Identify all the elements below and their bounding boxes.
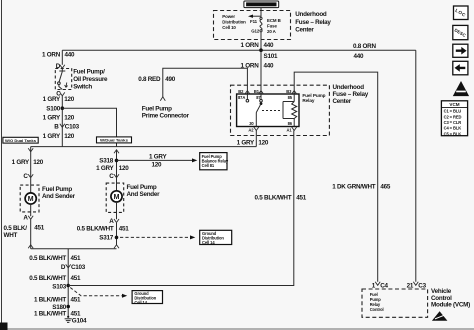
- pin D of oil pressure switch: [56, 63, 65, 70]
- svg-text:1 GRY: 1 GRY: [43, 114, 61, 121]
- svg-text:451: 451: [71, 297, 82, 304]
- svg-text:Fuel Pump: Fuel Pump: [142, 105, 172, 112]
- icon: DESC button: [453, 25, 468, 39]
- svg-text:440: 440: [264, 42, 275, 49]
- svg-text:1 GRY: 1 GRY: [12, 159, 30, 166]
- value label 1 GRY 120 (relay output): [237, 140, 269, 147]
- svg-text:120: 120: [119, 165, 130, 172]
- svg-text:1 GRY: 1 GRY: [43, 133, 61, 140]
- svg-text:B2: B2: [238, 89, 244, 94]
- relay K1 outer dashed box: [231, 85, 330, 135]
- svg-text:VCM: VCM: [449, 102, 459, 107]
- svg-text:Relay: Relay: [302, 98, 315, 103]
- svg-text:Cell 81: Cell 81: [202, 163, 215, 168]
- pin arrow fuel pump prime connector: [160, 97, 165, 101]
- value label 1 ORN 440 (left): [42, 52, 75, 59]
- label: Hot At All Times: [244, 1, 279, 8]
- svg-text:M: M: [114, 194, 120, 201]
- svg-text:0.5 BLK/WHT: 0.5 BLK/WHT: [29, 255, 66, 262]
- node S317: [99, 235, 118, 242]
- svg-text:C103: C103: [65, 124, 80, 131]
- wire: drop to S318: [116, 150, 118, 177]
- pin C of left fuel pump: [23, 173, 33, 180]
- svg-text:S317: S317: [99, 235, 113, 242]
- label: Vehicle Control Module (VCM): [431, 288, 470, 309]
- pin B1 of relay: [254, 89, 264, 94]
- value label 0.8 RED 490: [138, 76, 176, 83]
- wire: right pump A to S317: [116, 223, 118, 245]
- svg-text:Center: Center: [295, 27, 314, 34]
- svg-text:Fuel Pump/: Fuel Pump/: [73, 69, 105, 76]
- svg-text:1 GRY: 1 GRY: [149, 154, 167, 161]
- fuse block dashed box (Power Distribution): [214, 11, 291, 40]
- svg-text:Fuse: Fuse: [267, 24, 278, 29]
- svg-text:Underhood: Underhood: [295, 11, 327, 18]
- svg-text:S318: S318: [99, 158, 113, 165]
- wire: arrow to Fuel Pump Balance Relay: [117, 158, 198, 162]
- svg-text:Fuel Pump: Fuel Pump: [127, 184, 157, 191]
- wire: GRY 120 bus: [31, 146, 257, 148]
- svg-text:451: 451: [296, 195, 307, 202]
- switch SW1 Fuel Pump/Oil Pressure Switch: [55, 69, 71, 90]
- pin arrow dual tank drop: [114, 150, 119, 154]
- svg-text:A1: A1: [287, 128, 293, 133]
- value label 0.5 BLK/WHT 451: [29, 255, 81, 262]
- svg-text:B3: B3: [286, 89, 292, 94]
- svg-text:1 GRY: 1 GRY: [237, 140, 255, 147]
- svg-text:F11: F11: [250, 19, 258, 24]
- svg-text:Fuel Pump: Fuel Pump: [42, 186, 72, 193]
- pin C of oil pressure switch: [56, 90, 65, 97]
- svg-text:0.5 BLK/: 0.5 BLK/: [4, 225, 28, 232]
- pin A2 of relay: [248, 127, 258, 133]
- value label 0.5 BLK/WHT 451 (right pump): [77, 226, 130, 233]
- svg-text:451: 451: [71, 255, 82, 262]
- icon: previous arrow button: [453, 61, 468, 75]
- svg-text:451: 451: [71, 275, 82, 282]
- svg-text:Cell 14: Cell 14: [202, 240, 215, 245]
- svg-text:C5 = BLK: C5 = BLK: [444, 131, 462, 136]
- svg-text:440: 440: [264, 62, 275, 69]
- icon: next arrow button: [453, 44, 468, 57]
- svg-text:120: 120: [64, 96, 75, 103]
- svg-text:A2: A2: [248, 128, 254, 133]
- svg-text:1 GRY: 1 GRY: [96, 165, 114, 172]
- svg-text:WHT: WHT: [4, 232, 18, 239]
- svg-text:1 DK GRN/WHT: 1 DK GRN/WHT: [332, 184, 376, 191]
- svg-text:451: 451: [34, 224, 45, 231]
- svg-text:Cell 10: Cell 10: [222, 25, 236, 30]
- svg-text:Center: Center: [333, 98, 352, 105]
- value label 1 GRY 120 (balance relay feed): [149, 154, 167, 169]
- svg-text:440: 440: [65, 52, 76, 59]
- svg-text:Module (VCM): Module (VCM): [431, 302, 470, 309]
- VCM U1 dashed box: [362, 289, 428, 317]
- svg-text:M: M: [28, 196, 34, 203]
- ground G104: [65, 316, 87, 325]
- svg-text:A: A: [23, 215, 28, 222]
- wire: fuse output to S101: [260, 32, 262, 50]
- svg-text:Cell 14: Cell 14: [134, 300, 147, 305]
- label: Fuel Pump/Oil Pressure Switch: [73, 69, 108, 91]
- svg-text:0.8 RED: 0.8 RED: [138, 76, 161, 83]
- svg-text:B: B: [54, 124, 59, 131]
- svg-text:120: 120: [152, 161, 163, 168]
- pin arrow at ground bus right: [114, 245, 119, 249]
- pin B3 of relay: [286, 89, 296, 94]
- svg-text:D: D: [56, 63, 61, 70]
- value label 1 BLK/WHT 451: [34, 310, 81, 317]
- wire: main ORN 440 horizontal: [62, 49, 416, 51]
- svg-text:?: ?: [460, 86, 463, 91]
- page bottom edge line: [0, 323, 474, 330]
- fuse ECM B Fuse 20 A: [260, 17, 281, 34]
- node S103: [52, 284, 70, 291]
- value label 1 DK GRN/WHT 465: [332, 184, 391, 191]
- svg-text:465: 465: [380, 184, 391, 191]
- svg-text:120: 120: [258, 140, 269, 147]
- value label 1 GRY 120 (left pump): [12, 159, 44, 166]
- label: Fuel Pump Prime Connector: [142, 105, 190, 119]
- wire: dashed arrow S317 to ground distribution: [120, 235, 195, 239]
- svg-text:Hot At All Times: Hot At All Times: [247, 2, 276, 7]
- legend box: VCM connector colors: [441, 101, 467, 137]
- value label 0.8 ORN 440 (right feed): [353, 43, 376, 60]
- svg-text:G104: G104: [72, 318, 87, 325]
- value label 1 GRY 120: [43, 96, 75, 103]
- svg-text:C1 = BLU: C1 = BLU: [444, 109, 462, 114]
- svg-text:Underhood: Underhood: [333, 84, 365, 91]
- svg-text:1 BLK/WHT: 1 BLK/WHT: [34, 310, 66, 317]
- svg-text:120: 120: [64, 114, 75, 121]
- svg-text:0.5 BLK/WHT: 0.5 BLK/WHT: [29, 275, 66, 282]
- wire: ground bus: [31, 248, 117, 250]
- value label 0.5 BLK/WHT 451: [29, 275, 81, 282]
- svg-text:Power: Power: [222, 14, 235, 19]
- value label 1 GRY 120: [43, 114, 75, 121]
- svg-text:S100: S100: [46, 105, 60, 112]
- svg-text:451: 451: [71, 310, 82, 317]
- svg-text:490: 490: [165, 76, 176, 83]
- svg-text:And Sender: And Sender: [127, 191, 161, 198]
- svg-text:1 BLK/WHT: 1 BLK/WHT: [34, 297, 66, 304]
- svg-text:Distribution: Distribution: [222, 19, 246, 24]
- svg-text:20 A: 20 A: [267, 29, 277, 34]
- svg-text:ECM B: ECM B: [267, 18, 281, 23]
- svg-text:C4 = BLK: C4 = BLK: [444, 126, 462, 131]
- relay K1 Fuel Pump Relay: [237, 93, 326, 127]
- svg-text:C2 = RED: C2 = RED: [444, 114, 462, 119]
- wire: dashed arrow S103 to ground distribution: [70, 288, 127, 298]
- label: Underhood Fuse-Relay Center (relay): [333, 84, 369, 105]
- svg-text:Fuse – Relay: Fuse – Relay: [295, 19, 331, 26]
- label tag: W/O Dual Tanks: [3, 137, 38, 143]
- svg-text:And Sender: And Sender: [42, 193, 76, 200]
- svg-text:G12: G12: [251, 28, 260, 33]
- svg-text:0.8 ORN: 0.8 ORN: [353, 43, 376, 50]
- pin 21 C3 of VCM: [407, 282, 427, 290]
- svg-text:C3 = CLR: C3 = CLR: [444, 120, 462, 125]
- svg-text:Control: Control: [370, 307, 384, 312]
- pin A of right fuel pump: [109, 218, 119, 225]
- svg-text:A: A: [109, 218, 114, 225]
- connector C103 pin B: [54, 124, 79, 131]
- motor M2 right Fuel Pump And Sender: [106, 178, 124, 219]
- value label 1 GRY 120 (right pump): [96, 165, 129, 172]
- svg-text:87A: 87A: [238, 95, 245, 100]
- value label 1 ORN 440 (fuse output): [241, 42, 275, 49]
- svg-text:S101: S101: [264, 53, 278, 60]
- svg-text:D: D: [61, 264, 66, 271]
- pin C of right fuel pump: [109, 173, 119, 180]
- svg-text:W/Dual Tanks: W/Dual Tanks: [100, 139, 128, 143]
- svg-text:C3: C3: [418, 282, 426, 289]
- node S101: [259, 48, 278, 59]
- wire: relay A2 down to GRY bus: [255, 131, 257, 147]
- svg-text:W/O Dual Tanks: W/O Dual Tanks: [5, 139, 36, 143]
- node S180: [52, 304, 70, 311]
- svg-text:C: C: [109, 173, 114, 180]
- svg-text:0.5 BLK/WHT: 0.5 BLK/WHT: [255, 195, 292, 202]
- connector C103 pin D: [61, 264, 86, 271]
- icon: LOC button: [454, 6, 469, 20]
- svg-text:C103: C103: [71, 264, 86, 271]
- wire: left pump A to ground bus: [30, 220, 32, 249]
- pin A1 of relay: [287, 127, 297, 133]
- svg-text:Prime Connector: Prime Connector: [142, 113, 190, 120]
- wire: ORN 440 right drop to VCM C3: [415, 50, 417, 282]
- wire: switch C down to bus: [61, 96, 63, 147]
- svg-text:21: 21: [407, 282, 414, 289]
- wire: bus drop to left fuel pump: [28, 147, 33, 178]
- svg-text:C: C: [23, 173, 28, 180]
- pin arrow at ground bus left: [28, 245, 33, 249]
- arrow to power distribution: [248, 15, 261, 18]
- label: Fuel Pump And Sender (right): [127, 184, 161, 198]
- svg-text:1 ORN: 1 ORN: [241, 62, 260, 69]
- value label 0.5 BLK/WHT 451 (relay ground): [255, 195, 307, 202]
- value label 1 ORN 440 (relay feed): [241, 62, 275, 69]
- reference box: Fuel Pump Balance Relay Cell 81: [200, 153, 229, 170]
- wire: S101 down to relay B1: [260, 50, 262, 94]
- wire: prime connector branch: [163, 68, 248, 97]
- icon: caution triangle: [453, 81, 469, 96]
- wire: relay B3 to VCM C4: [294, 72, 378, 282]
- pin A of left fuel pump: [23, 215, 33, 222]
- svg-text:451: 451: [119, 226, 130, 233]
- svg-text:120: 120: [33, 159, 44, 166]
- node S100: [46, 105, 64, 112]
- ESD triangle icon: [432, 311, 448, 320]
- pin 1 C4 of VCM: [372, 282, 389, 290]
- svg-text:S103: S103: [52, 284, 66, 291]
- svg-text:Fuse – Relay: Fuse – Relay: [333, 91, 369, 98]
- reference box: Ground Distribution Cell 14 (lower): [132, 291, 162, 305]
- svg-text:120: 120: [64, 133, 75, 140]
- value label 1 GRY 120: [43, 133, 75, 140]
- reference box: Ground Distribution Cell 14 (upper): [200, 230, 232, 245]
- wire: relay A1 down and left to S103: [68, 131, 294, 286]
- svg-text:1 ORN: 1 ORN: [241, 42, 260, 49]
- node S318: [99, 158, 118, 165]
- page left edge line: [1, 0, 3, 330]
- svg-text:1 ORN: 1 ORN: [42, 52, 61, 59]
- svg-text:1 GRY: 1 GRY: [43, 96, 61, 103]
- value label 0.5 BLK/WHT 451 (left pump): [4, 224, 45, 239]
- label: Fuel Pump Relay Control: [370, 292, 384, 312]
- label tag: W/Dual Tanks: [97, 137, 132, 143]
- wire: left drop to oil pressure switch: [61, 50, 63, 65]
- svg-text:440: 440: [354, 53, 365, 60]
- value label 1 BLK/WHT 451: [34, 297, 81, 304]
- svg-text:C4: C4: [380, 282, 388, 289]
- label: Power Distribution Cell 10: [222, 14, 246, 30]
- wire: hot feed into fuse block: [260, 8, 262, 18]
- label: Underhood Fuse-Relay Center (top): [295, 11, 331, 33]
- wire: S100 branch to dual-tank drop: [62, 108, 116, 146]
- wire: ground bus drop to G104 chain: [67, 249, 69, 317]
- svg-text:Switch: Switch: [73, 84, 92, 91]
- pin B2 of relay: [238, 89, 250, 94]
- motor M1 left Fuel Pump And Sender: [20, 178, 39, 216]
- svg-text:Oil Pressure: Oil Pressure: [73, 76, 108, 83]
- svg-text:0.5 BLK/WHT: 0.5 BLK/WHT: [77, 226, 114, 233]
- label: Fuel Pump And Sender (left): [42, 186, 76, 200]
